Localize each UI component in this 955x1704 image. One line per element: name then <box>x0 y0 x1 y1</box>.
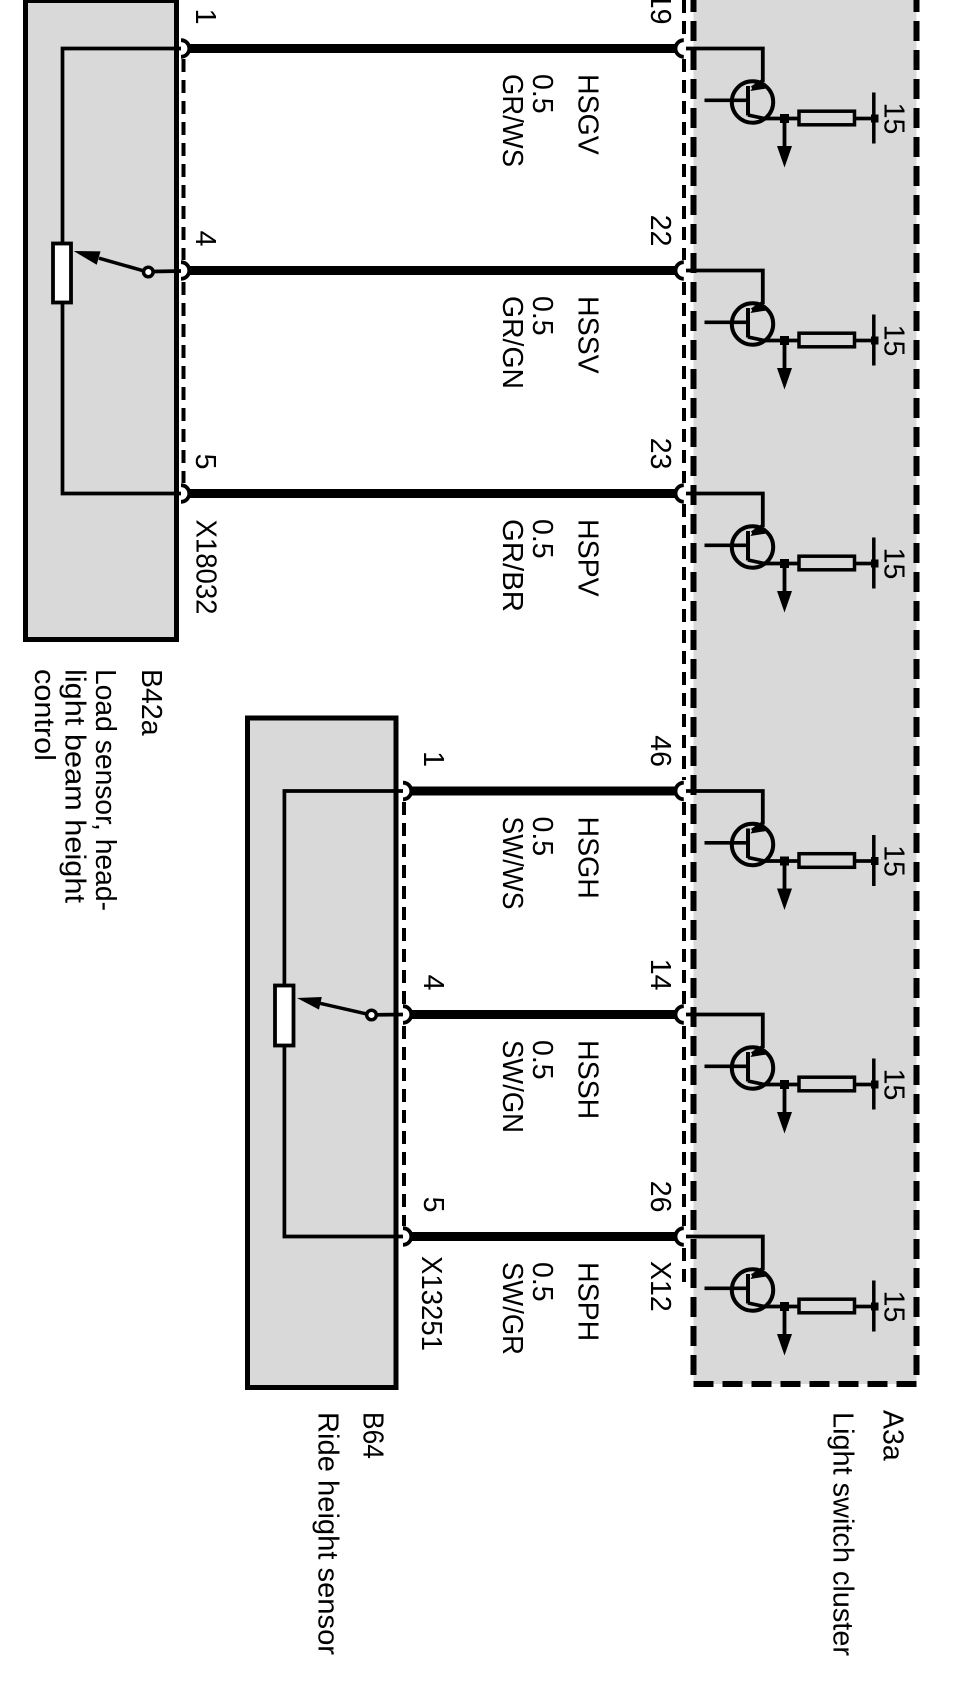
svg-text:19: 19 <box>644 0 676 25</box>
wire HSSV (B42a pin 4 to A3a pin 22) <box>189 266 676 275</box>
wire resistor R4 to terminal 15 <box>856 859 871 863</box>
resistor R1 <box>799 111 855 125</box>
connector line X13251 (dashed) <box>402 802 406 1004</box>
svg-text:0.5: 0.5 <box>526 519 558 559</box>
junction node 5 <box>780 1080 789 1089</box>
junction node 1 <box>780 114 789 123</box>
svg-text:HSGV: HSGV <box>572 74 604 155</box>
wiper arrow B42a <box>99 258 144 271</box>
svg-text:0.5: 0.5 <box>526 1040 558 1080</box>
wire HSGH (B64 pin 1 to A3a pin 46) <box>411 787 676 796</box>
wire HSPH (B64 pin 5 to A3a pin 26) <box>411 1232 676 1241</box>
pin 46 socket (A3a) <box>675 783 683 800</box>
svg-text:light beam height: light beam height <box>59 669 91 903</box>
wire resistor R6 to terminal 15 <box>856 1305 871 1309</box>
svg-text:HSSV: HSSV <box>572 296 604 374</box>
resistor R5 <box>799 1077 855 1091</box>
svg-text:1: 1 <box>189 9 221 25</box>
wire A3a pin to transistor Q5 <box>686 1015 763 1049</box>
component box B42a (load sensor) <box>26 1 177 640</box>
junction node 4 <box>780 857 789 866</box>
svg-text:HSSH: HSSH <box>572 1040 604 1119</box>
wire B42a wiper to pin 4 <box>153 269 182 273</box>
svg-text:1: 1 <box>417 751 449 767</box>
svg-text:GR/BR: GR/BR <box>496 519 528 612</box>
svg-text:control: control <box>28 669 60 761</box>
svg-text:A3a: A3a <box>877 1410 909 1461</box>
terminal 15 node 3 <box>871 560 879 568</box>
svg-text:5: 5 <box>189 454 221 470</box>
wire resistor R3 to terminal 15 <box>856 562 871 566</box>
wire B64 pot top to pin 1 <box>284 791 403 986</box>
terminal 15 node 5 <box>871 1081 879 1089</box>
transistor Q3 <box>732 525 773 568</box>
base lead Q1 <box>705 98 749 102</box>
pin 1 socket (B42a) <box>181 40 189 57</box>
connector line A3a / X12 (dashed) <box>682 0 686 38</box>
wire A3a pin to transistor Q6 <box>686 1237 763 1271</box>
junction node 2 <box>780 336 789 345</box>
collector wire Q2 to resistor <box>762 339 799 343</box>
pin 5 socket (B42a) <box>181 485 189 502</box>
base lead Q6 <box>705 1286 749 1290</box>
ground/continuation arrow 4 <box>783 861 787 889</box>
svg-text:Ride height sensor: Ride height sensor <box>312 1412 344 1656</box>
svg-text:HSGH: HSGH <box>572 817 604 899</box>
svg-text:SW/WS: SW/WS <box>496 817 528 910</box>
base lead Q4 <box>705 841 749 845</box>
collector wire Q6 to resistor <box>762 1305 799 1309</box>
ground/continuation arrow 1 <box>783 119 787 147</box>
svg-text:15: 15 <box>878 1291 910 1323</box>
svg-text:0.5: 0.5 <box>526 817 558 857</box>
wire B42a pot top to pin 1 <box>63 49 183 244</box>
wire A3a pin to transistor Q1 <box>686 49 763 83</box>
svg-text:GR/WS: GR/WS <box>496 74 528 167</box>
svg-text:15: 15 <box>878 103 910 135</box>
transistor Q6 <box>732 1268 773 1311</box>
svg-text:GR/GN: GR/GN <box>496 296 528 389</box>
wire HSSH (B64 pin 4 to A3a pin 14) <box>411 1010 676 1019</box>
svg-text:23: 23 <box>644 438 676 470</box>
svg-text:0.5: 0.5 <box>526 74 558 114</box>
svg-text:Light switch cluster: Light switch cluster <box>827 1412 859 1657</box>
wire A3a pin to transistor Q4 <box>686 791 763 825</box>
wire resistor R5 to terminal 15 <box>856 1083 871 1087</box>
junction node 3 <box>780 559 789 568</box>
wiper contact circle B42a <box>144 267 154 277</box>
terminal 15 node 6 <box>871 1303 879 1311</box>
resistor R3 <box>799 556 855 570</box>
wiper arrow B64 <box>320 1003 367 1014</box>
collector wire Q1 to resistor <box>762 117 799 121</box>
svg-text:22: 22 <box>644 215 676 247</box>
pin 23 socket (A3a) <box>676 485 684 502</box>
component box B64 (ride height sensor) <box>248 718 397 1388</box>
svg-text:4: 4 <box>417 975 449 991</box>
ground/continuation arrow 5 <box>783 1085 787 1113</box>
pin 22 socket (A3a) <box>676 262 684 279</box>
pin 14 socket (A3a) <box>675 1006 683 1023</box>
wire A3a pin to transistor Q2 <box>686 271 763 305</box>
control unit box A3a (light switch cluster, dashed) <box>694 0 917 1384</box>
ground/continuation arrow 6 <box>783 1307 787 1335</box>
potentiometer element B64 <box>275 986 294 1046</box>
base lead Q5 <box>705 1064 749 1068</box>
svg-text:4: 4 <box>189 231 221 247</box>
wire B42a pot bottom to pin 5 <box>63 303 183 494</box>
wire A3a pin to transistor Q3 <box>686 494 763 528</box>
svg-text:B42a: B42a <box>135 669 167 736</box>
transistor Q5 <box>732 1046 773 1089</box>
svg-text:Load sensor, head-: Load sensor, head- <box>89 669 121 911</box>
svg-text:HSPV: HSPV <box>572 519 604 597</box>
wire B64 pot bottom to pin 5 <box>284 1046 403 1237</box>
svg-text:X18032: X18032 <box>190 520 222 615</box>
svg-text:46: 46 <box>644 735 676 767</box>
svg-text:15: 15 <box>878 325 910 357</box>
wire HSGV (B42a pin 1 to A3a pin 19) <box>189 44 676 53</box>
collector wire Q3 to resistor <box>762 562 799 566</box>
wire resistor R1 to terminal 15 <box>856 117 871 121</box>
svg-text:HSPH: HSPH <box>572 1262 604 1341</box>
ground/continuation arrow 3 <box>783 564 787 592</box>
collector wire Q5 to resistor <box>762 1083 799 1087</box>
pin 4 socket (B64) <box>403 1006 411 1023</box>
resistor R6 <box>799 1299 855 1313</box>
svg-text:15: 15 <box>878 548 910 580</box>
pin 19 socket (A3a) <box>675 40 683 57</box>
svg-text:SW/GN: SW/GN <box>496 1040 528 1133</box>
resistor R2 <box>799 333 855 347</box>
connector line X18032 (dashed) <box>182 59 186 260</box>
terminal 15 node 4 <box>871 857 879 865</box>
svg-text:5: 5 <box>417 1197 449 1213</box>
pin 26 socket (A3a) <box>675 1228 683 1245</box>
svg-text:15: 15 <box>878 1069 910 1101</box>
terminal 15 node 1 <box>871 115 879 123</box>
wire HSPV (B42a pin 5 to A3a pin 23) <box>189 489 676 498</box>
wiper contact circle B64 <box>367 1010 377 1020</box>
svg-text:SW/GR: SW/GR <box>496 1262 528 1355</box>
transistor Q2 <box>732 302 773 345</box>
svg-text:14: 14 <box>644 959 676 991</box>
pin 1 socket (B64) <box>403 783 411 800</box>
svg-text:B64: B64 <box>357 1412 389 1459</box>
terminal 15 node 2 <box>871 337 879 345</box>
wire B64 wiper to pin 4 <box>376 1013 403 1017</box>
svg-text:0.5: 0.5 <box>526 1262 558 1302</box>
ground/continuation arrow 2 <box>783 341 787 369</box>
junction node 6 <box>780 1302 789 1311</box>
wire resistor R2 to terminal 15 <box>856 339 871 343</box>
potentiometer element B42a <box>53 244 71 303</box>
transistor Q4 <box>732 822 773 865</box>
resistor R4 <box>799 854 855 868</box>
pin 4 socket (B42a) <box>181 262 189 279</box>
svg-text:0.5: 0.5 <box>526 296 558 336</box>
base lead Q2 <box>705 320 749 324</box>
transistor Q1 <box>732 80 773 123</box>
svg-text:X12: X12 <box>644 1261 676 1312</box>
svg-text:X13251: X13251 <box>415 1256 447 1351</box>
base lead Q3 <box>705 543 749 547</box>
collector wire Q4 to resistor <box>762 859 799 863</box>
svg-text:15: 15 <box>878 845 910 877</box>
pin 5 socket (B64) <box>403 1228 411 1245</box>
svg-text:26: 26 <box>644 1181 676 1213</box>
